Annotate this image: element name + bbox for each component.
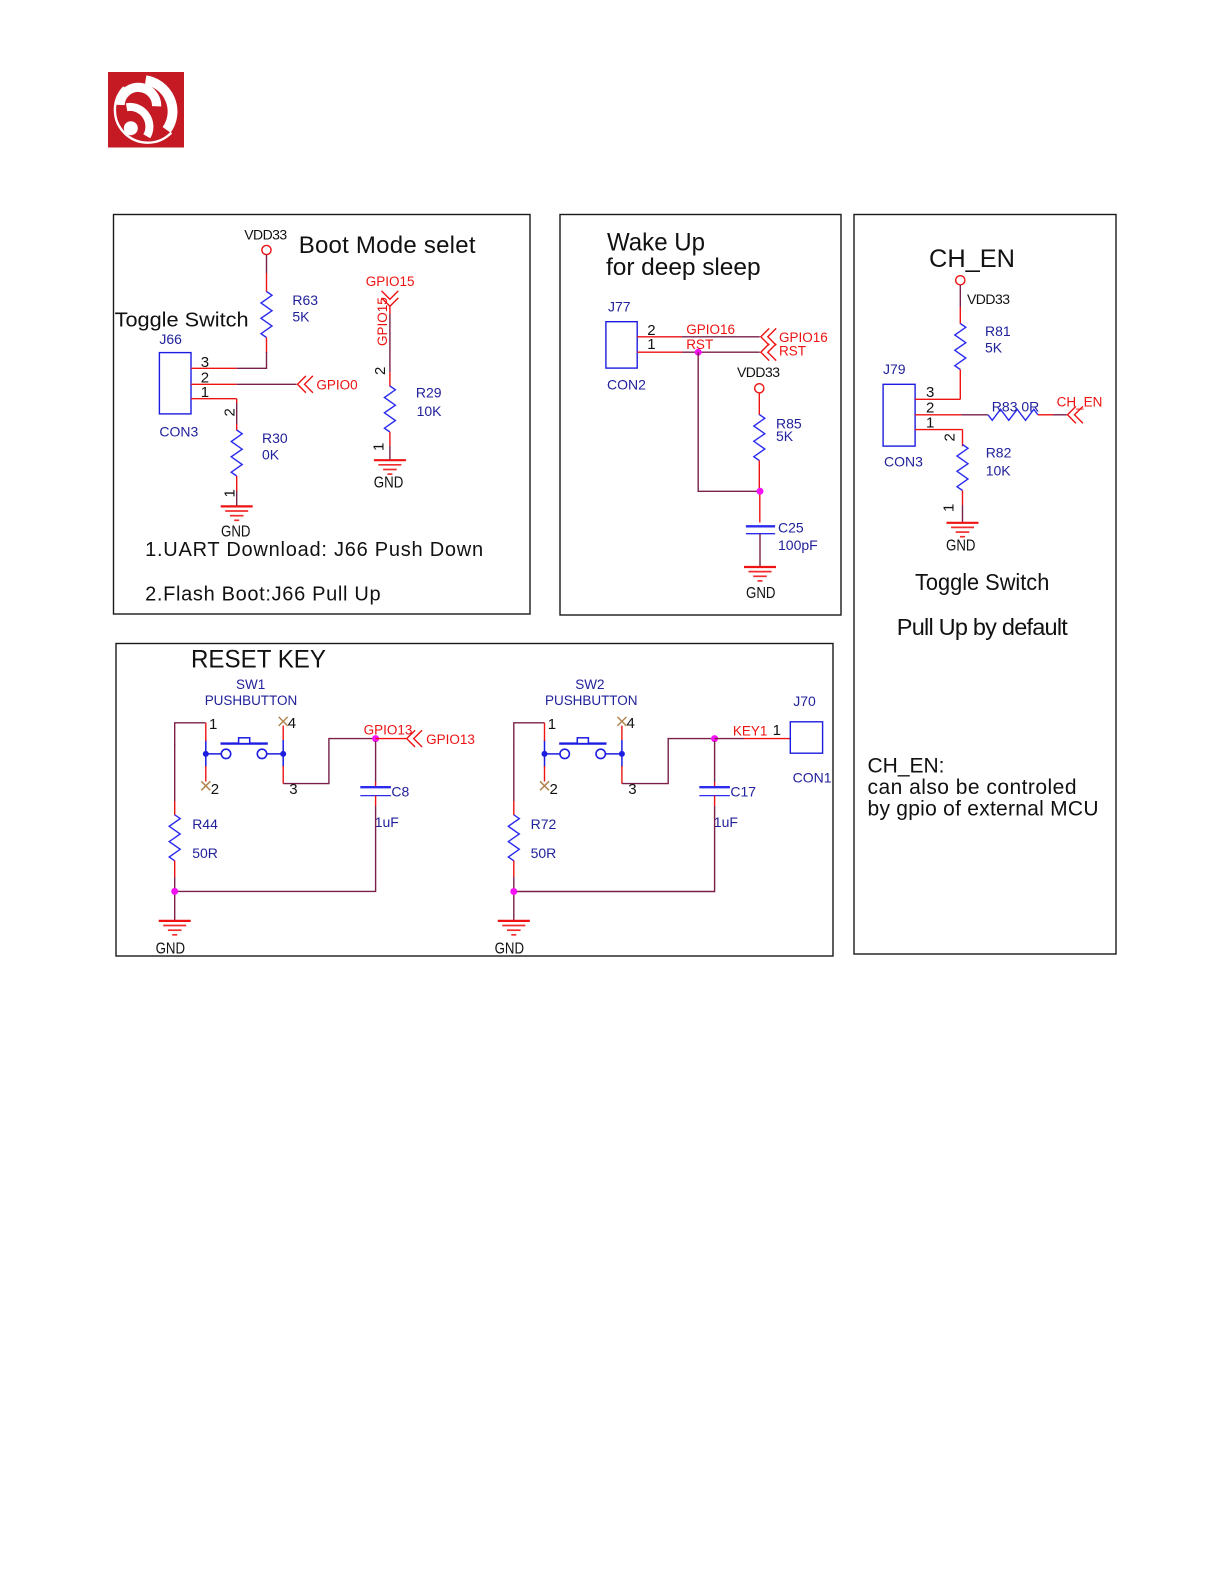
svg-text:CH_EN:: CH_EN: bbox=[868, 755, 945, 778]
connector J79 bbox=[883, 361, 923, 470]
svg-text:SW1: SW1 bbox=[236, 677, 265, 692]
wire: pin2 to GPIO16 bbox=[682, 322, 760, 337]
svg-text:2: 2 bbox=[222, 408, 239, 416]
svg-text:2: 2 bbox=[211, 781, 219, 798]
wire: R63 to J66 pin3 bbox=[237, 338, 267, 369]
value label C17 1uF bbox=[714, 783, 756, 830]
J77 pin 2 bbox=[637, 322, 682, 339]
svg-text:1: 1 bbox=[941, 504, 958, 512]
svg-text:1.UART Download: J66 Push Down: 1.UART Download: J66 Push Down bbox=[145, 539, 483, 561]
svg-text:100pF: 100pF bbox=[778, 537, 818, 553]
wire: RST net down and right bbox=[698, 352, 760, 491]
schematic frame: Boot Mode box bbox=[114, 215, 531, 615]
net GPIO13 bbox=[407, 730, 475, 747]
svg-text:R81: R81 bbox=[985, 323, 1011, 339]
svg-text:R72: R72 bbox=[531, 816, 557, 832]
svg-text:RST: RST bbox=[779, 343, 806, 358]
svg-text:1: 1 bbox=[647, 336, 655, 353]
svg-text:for deep sleep: for deep sleep bbox=[606, 254, 761, 281]
wire: GPIO15 to R29 bbox=[372, 307, 390, 387]
svg-text:4: 4 bbox=[627, 715, 635, 732]
svg-text:GND: GND bbox=[746, 585, 776, 602]
value label R72 50R bbox=[531, 816, 557, 861]
svg-text:by gpio of external MCU: by gpio of external MCU bbox=[868, 798, 1099, 821]
svg-text:J66: J66 bbox=[159, 331, 182, 347]
svg-text:R30: R30 bbox=[262, 430, 288, 446]
SW2 pin 4 stub bbox=[617, 715, 634, 740]
wire: SW2 pin1 top rail bbox=[514, 723, 545, 745]
wire: pin1 to RST bbox=[682, 337, 760, 352]
svg-text:VDD33: VDD33 bbox=[737, 364, 780, 380]
wire: R29 to GND bbox=[371, 432, 390, 460]
junction on RST net bbox=[695, 349, 702, 356]
svg-text:R83 0R: R83 0R bbox=[992, 398, 1039, 414]
svg-text:C25: C25 bbox=[778, 520, 804, 536]
svg-text:GND: GND bbox=[495, 941, 524, 958]
svg-text:GPIO16: GPIO16 bbox=[686, 322, 735, 337]
net GPIO16 bbox=[761, 328, 828, 345]
svg-text:Toggle Switch: Toggle Switch bbox=[915, 569, 1049, 595]
value label R29 10K bbox=[416, 385, 442, 419]
svg-text:10K: 10K bbox=[986, 463, 1012, 479]
wire: C8 to bottom rail bbox=[175, 796, 376, 892]
J79 pin 1 bbox=[915, 414, 962, 431]
svg-text:J77: J77 bbox=[608, 299, 631, 315]
wire: R81 to J79 pin3 bbox=[959, 370, 961, 400]
svg-text:3: 3 bbox=[628, 781, 636, 798]
wire: J66 pin2 to GPIO0 bbox=[237, 383, 297, 385]
wire: C25 to GND bbox=[759, 534, 761, 567]
ground GND (R82) bbox=[946, 523, 979, 555]
resistor R63 bbox=[261, 292, 272, 338]
J77 pin 1 bbox=[637, 336, 682, 353]
SW2 pin 3 wire to KEY1 node bbox=[622, 739, 715, 798]
wire: R30 to GND bbox=[222, 476, 239, 506]
svg-text:5K: 5K bbox=[985, 340, 1003, 356]
wire: SW1 pin1 top rail bbox=[175, 723, 206, 745]
wire: R83 to CH_EN bbox=[1038, 414, 1067, 416]
svg-text:1: 1 bbox=[201, 384, 209, 401]
svg-text:GND: GND bbox=[156, 941, 186, 958]
schematic frame: Wake Up box bbox=[560, 215, 841, 616]
value label R81 5K bbox=[985, 323, 1011, 356]
svg-text:RESET KEY: RESET KEY bbox=[191, 646, 326, 674]
svg-text:1uF: 1uF bbox=[714, 814, 738, 830]
capacitor C17 bbox=[699, 787, 730, 795]
svg-text:R82: R82 bbox=[986, 445, 1012, 461]
svg-text:CON1: CON1 bbox=[793, 769, 832, 785]
value label R44 50R bbox=[192, 816, 218, 861]
pushbutton SW2 bbox=[542, 677, 638, 767]
value label R30 0K bbox=[262, 430, 288, 462]
power symbol VDD33 bbox=[244, 226, 287, 254]
svg-text:CH_EN: CH_EN bbox=[1057, 394, 1103, 409]
svg-text:R29: R29 bbox=[416, 385, 442, 401]
svg-text:Toggle Switch: Toggle Switch bbox=[115, 310, 249, 332]
junction SW2 ground node bbox=[510, 888, 517, 895]
power symbol VDD33 (CH_EN) bbox=[956, 276, 1011, 307]
svg-text:10K: 10K bbox=[417, 403, 443, 419]
resistor R30 bbox=[231, 430, 242, 476]
svg-text:GND: GND bbox=[374, 475, 404, 492]
wire: pin2 to R83 bbox=[961, 414, 988, 416]
wire: SW2 left rail to R72 bbox=[513, 744, 515, 815]
J79 pin 3 bbox=[915, 384, 960, 401]
power symbol VDD33 (wake up) bbox=[737, 364, 780, 393]
svg-text:50R: 50R bbox=[192, 845, 218, 861]
net GPIO0 bbox=[298, 376, 358, 393]
value label C25 100pF bbox=[778, 520, 818, 553]
resistor R81 bbox=[955, 324, 966, 370]
svg-text:4: 4 bbox=[288, 715, 296, 732]
Espressif logo bbox=[108, 72, 184, 148]
svg-text:3: 3 bbox=[926, 384, 934, 401]
SW1 pin 3 wire to GPIO13 node bbox=[283, 739, 375, 798]
wire: R72 to GND junction bbox=[513, 861, 515, 921]
resistor R29 bbox=[384, 386, 395, 432]
wire: VDD33 to R81 bbox=[959, 285, 961, 324]
svg-text:3: 3 bbox=[289, 781, 297, 798]
svg-text:KEY1: KEY1 bbox=[733, 723, 768, 738]
resistor R83 bbox=[988, 409, 1038, 420]
wire: junction to GPIO13 connector bbox=[376, 738, 406, 740]
svg-text:1: 1 bbox=[548, 716, 556, 733]
svg-text:GPIO15: GPIO15 bbox=[366, 274, 415, 289]
wire: junction down to C17 bbox=[714, 741, 716, 787]
svg-text:3: 3 bbox=[201, 354, 209, 371]
SW2 pin 2 stub bbox=[540, 766, 558, 798]
svg-text:R63: R63 bbox=[292, 292, 318, 308]
net RST bbox=[761, 343, 806, 360]
wire: R44 to GND junction bbox=[174, 861, 176, 921]
svg-text:GPIO15: GPIO15 bbox=[375, 297, 390, 346]
connector J66 bbox=[159, 331, 198, 440]
J66 pin 2 bbox=[191, 370, 237, 387]
svg-text:2: 2 bbox=[942, 433, 959, 441]
schematic frame: RESET KEY box bbox=[116, 644, 833, 957]
svg-text:GND: GND bbox=[946, 538, 976, 555]
svg-text:1: 1 bbox=[209, 716, 217, 733]
wire: R85 to junction to C25 bbox=[758, 461, 761, 523]
wire: pin1 down to R82 bbox=[942, 430, 963, 447]
resistor R82 bbox=[957, 445, 968, 491]
svg-text:Boot Mode selet: Boot Mode selet bbox=[299, 232, 476, 259]
pushbutton SW1 bbox=[203, 677, 297, 767]
svg-text:Wake Up: Wake Up bbox=[607, 229, 705, 257]
resistor R44 bbox=[169, 815, 180, 861]
svg-text:0K: 0K bbox=[262, 446, 280, 462]
J66 pin 1 bbox=[191, 384, 237, 401]
junction SW1 ground node bbox=[171, 888, 178, 895]
net CH_EN bbox=[1057, 394, 1103, 423]
wire: junction to J70 bbox=[715, 738, 791, 740]
svg-text:1: 1 bbox=[926, 414, 934, 431]
SW1 pin 2 stub bbox=[201, 766, 219, 798]
capacitor C25 bbox=[746, 526, 775, 533]
value label C8 1uF bbox=[375, 783, 410, 830]
svg-text:GPIO13: GPIO13 bbox=[426, 732, 475, 747]
ground GND (SW2) bbox=[495, 921, 530, 958]
J79 pin 2 bbox=[915, 400, 961, 417]
connector J77 bbox=[606, 299, 646, 393]
SW1 pin 4 stub bbox=[279, 715, 296, 740]
svg-text:R44: R44 bbox=[192, 816, 218, 832]
svg-text:can also be controled: can also be controled bbox=[868, 776, 1077, 799]
connector J70 bbox=[790, 693, 831, 785]
svg-text:50R: 50R bbox=[531, 845, 557, 861]
svg-text:PUSHBUTTON: PUSHBUTTON bbox=[545, 693, 638, 708]
ground GND (C25) bbox=[744, 567, 776, 602]
junction GPIO13 node bbox=[372, 735, 379, 742]
svg-text:CON3: CON3 bbox=[884, 454, 923, 470]
wire: J66 pin1 down to R30 bbox=[222, 399, 239, 431]
svg-text:C8: C8 bbox=[391, 783, 409, 799]
svg-text:SW2: SW2 bbox=[575, 677, 604, 692]
svg-text:1: 1 bbox=[773, 722, 781, 739]
svg-text:VDD33: VDD33 bbox=[967, 291, 1010, 307]
wire: left rail to R44 bbox=[174, 744, 176, 815]
svg-text:GPIO0: GPIO0 bbox=[316, 377, 357, 392]
value label R85 5K bbox=[776, 415, 802, 444]
svg-text:1: 1 bbox=[371, 443, 388, 451]
value label R82 10K bbox=[986, 445, 1012, 479]
wire: C17 to bottom rail bbox=[514, 796, 715, 892]
svg-text:5K: 5K bbox=[292, 308, 310, 324]
svg-text:2.Flash Boot:J66 Pull Up: 2.Flash Boot:J66 Pull Up bbox=[145, 584, 381, 606]
svg-text:1uF: 1uF bbox=[375, 814, 399, 830]
wire: VDD33 to R63 bbox=[266, 255, 268, 292]
svg-text:CH_EN: CH_EN bbox=[929, 245, 1015, 273]
svg-text:J79: J79 bbox=[883, 361, 906, 377]
capacitor C8 bbox=[360, 787, 391, 795]
junction KEY1 node bbox=[711, 735, 718, 742]
svg-text:CON2: CON2 bbox=[607, 377, 646, 393]
svg-text:PUSHBUTTON: PUSHBUTTON bbox=[205, 693, 298, 708]
svg-text:GPIO13: GPIO13 bbox=[364, 722, 413, 737]
net GPIO15 label bbox=[366, 274, 415, 346]
ground GND (R29) bbox=[374, 460, 406, 492]
junction at R85/C25 bbox=[757, 488, 764, 495]
wire: R82 to GND bbox=[941, 491, 963, 523]
resistor R85 bbox=[754, 415, 765, 461]
net label KEY1 bbox=[733, 722, 781, 739]
note: CH_EN control bbox=[868, 755, 1099, 821]
title: Wake Up for deep sleep bbox=[606, 229, 761, 282]
wire: junction down to C8 bbox=[375, 741, 377, 787]
ground GND (R30) bbox=[221, 506, 253, 540]
svg-text:2: 2 bbox=[372, 367, 389, 375]
svg-text:J70: J70 bbox=[793, 693, 816, 709]
svg-text:Pull Up by default: Pull Up by default bbox=[897, 614, 1068, 640]
J66 pin 3 bbox=[191, 354, 237, 371]
svg-text:2: 2 bbox=[550, 781, 558, 798]
ground GND (SW1) bbox=[156, 921, 191, 958]
svg-text:C17: C17 bbox=[730, 783, 756, 799]
resistor R72 bbox=[508, 815, 519, 861]
svg-text:CON3: CON3 bbox=[159, 424, 198, 440]
wire: VDD33 to R85 bbox=[758, 393, 760, 415]
svg-text:1: 1 bbox=[222, 489, 239, 497]
svg-text:VDD33: VDD33 bbox=[244, 226, 287, 242]
svg-text:5K: 5K bbox=[776, 428, 794, 444]
schematic frame: CH_EN box bbox=[854, 215, 1116, 955]
value label R63 5K bbox=[292, 292, 318, 324]
